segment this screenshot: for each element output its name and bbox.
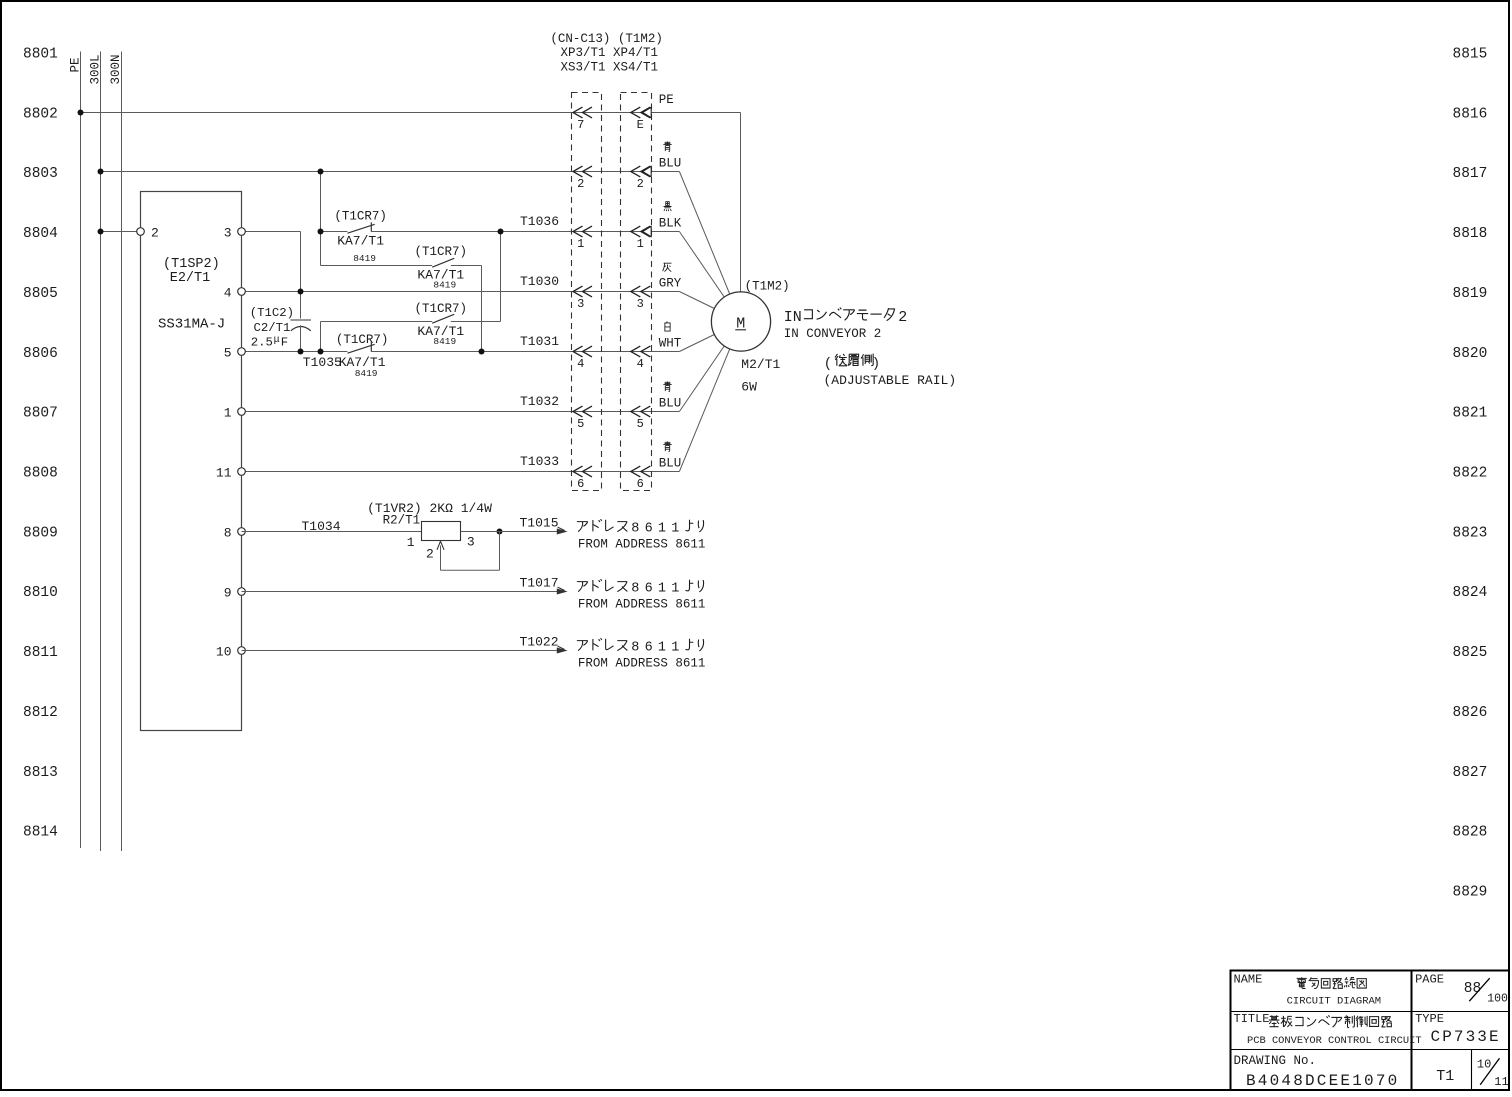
svg-text:6: 6 <box>645 640 653 655</box>
svg-text:2: 2 <box>898 309 907 326</box>
svg-text:5: 5 <box>224 345 232 360</box>
svg-text:BLK: BLK <box>659 216 682 230</box>
svg-text:6: 6 <box>637 477 644 491</box>
svg-text:4: 4 <box>637 357 644 371</box>
svg-text:7: 7 <box>577 118 584 132</box>
svg-text:(T1CR7): (T1CR7) <box>336 333 389 347</box>
svg-text:9: 9 <box>224 585 232 600</box>
svg-text:8820: 8820 <box>1453 346 1488 362</box>
svg-text:M2/T1: M2/T1 <box>741 357 780 372</box>
svg-text:F: F <box>281 336 288 350</box>
svg-text:μ: μ <box>274 335 280 346</box>
svg-text:PE: PE <box>69 57 83 72</box>
svg-text:T1033: T1033 <box>520 454 559 469</box>
svg-text:BLU: BLU <box>659 156 682 170</box>
svg-text:8823: 8823 <box>1453 525 1488 541</box>
svg-text:1: 1 <box>224 405 232 420</box>
svg-text:3: 3 <box>224 225 232 240</box>
svg-text:FROM ADDRESS 8611: FROM ADDRESS 8611 <box>578 656 706 670</box>
svg-text:6W: 6W <box>741 380 757 395</box>
svg-text:1: 1 <box>577 237 584 251</box>
svg-text:2: 2 <box>637 177 644 191</box>
svg-text:XS3/T1 XS4/T1: XS3/T1 XS4/T1 <box>561 61 659 75</box>
svg-text:88: 88 <box>1464 981 1481 997</box>
svg-text:T1030: T1030 <box>520 274 559 289</box>
svg-text:300L: 300L <box>89 54 103 84</box>
svg-text:B4048DCEE1070: B4048DCEE1070 <box>1246 1072 1399 1090</box>
svg-text:T1017: T1017 <box>519 576 558 591</box>
svg-text:8808: 8808 <box>23 465 58 481</box>
svg-text:8819: 8819 <box>1453 286 1488 302</box>
svg-text:8: 8 <box>631 640 639 655</box>
svg-text:8804: 8804 <box>23 226 58 242</box>
svg-text:(T1CR7): (T1CR7) <box>415 302 468 316</box>
svg-text:(T1C2): (T1C2) <box>250 306 294 320</box>
svg-text:C2/T1: C2/T1 <box>254 321 291 335</box>
svg-text:T1: T1 <box>1436 1068 1454 1085</box>
svg-text:E: E <box>637 118 644 132</box>
svg-text:2: 2 <box>426 547 434 562</box>
svg-text:2: 2 <box>577 177 584 191</box>
svg-text:1: 1 <box>671 640 679 655</box>
svg-text:8826: 8826 <box>1453 705 1488 721</box>
svg-text:3: 3 <box>577 297 584 311</box>
svg-text:NAME: NAME <box>1234 972 1263 986</box>
svg-text:T1022: T1022 <box>519 635 558 650</box>
svg-text:8: 8 <box>631 581 639 596</box>
svg-text:8818: 8818 <box>1453 226 1488 242</box>
svg-text:8827: 8827 <box>1453 765 1488 781</box>
svg-text:1: 1 <box>637 237 644 251</box>
svg-text:8815: 8815 <box>1453 46 1488 62</box>
svg-text:6: 6 <box>645 521 653 536</box>
svg-text:PAGE: PAGE <box>1415 972 1444 986</box>
svg-text:8419: 8419 <box>355 368 378 379</box>
svg-text:BLU: BLU <box>659 396 682 410</box>
svg-text:10: 10 <box>1477 1057 1491 1071</box>
svg-text:1: 1 <box>407 535 415 550</box>
svg-text:11: 11 <box>1494 1075 1508 1089</box>
svg-text:8807: 8807 <box>23 406 58 422</box>
svg-text:4: 4 <box>224 285 232 300</box>
svg-text:1: 1 <box>658 581 666 596</box>
svg-text:(T1CR7): (T1CR7) <box>415 245 468 259</box>
svg-text:1: 1 <box>658 521 666 536</box>
svg-text:PE: PE <box>659 93 674 107</box>
svg-text:SS31MA-J: SS31MA-J <box>158 317 225 333</box>
svg-text:8817: 8817 <box>1453 166 1488 182</box>
svg-text:8802: 8802 <box>23 106 58 122</box>
svg-text:T1035: T1035 <box>303 355 342 370</box>
svg-text:XP3/T1 XP4/T1: XP3/T1 XP4/T1 <box>561 46 659 60</box>
svg-text:T1015: T1015 <box>519 516 558 531</box>
svg-text:8801: 8801 <box>23 46 58 62</box>
svg-text:8419: 8419 <box>433 280 456 291</box>
svg-text:8811: 8811 <box>23 645 58 661</box>
svg-text:8419: 8419 <box>433 336 456 347</box>
svg-text:FROM ADDRESS 8611: FROM ADDRESS 8611 <box>578 537 706 551</box>
svg-text:TYPE: TYPE <box>1415 1012 1444 1026</box>
svg-text:CP733E: CP733E <box>1431 1028 1501 1046</box>
svg-text:3: 3 <box>467 535 475 550</box>
svg-text:PCB CONVEYOR CONTROL CIRCUIT: PCB CONVEYOR CONTROL CIRCUIT <box>1247 1035 1422 1047</box>
svg-text:3: 3 <box>637 297 644 311</box>
svg-text:IN CONVEYOR 2: IN CONVEYOR 2 <box>784 327 882 341</box>
svg-text:1: 1 <box>671 521 679 536</box>
svg-text:E2/T1: E2/T1 <box>170 271 211 286</box>
svg-text:1: 1 <box>658 640 666 655</box>
svg-text:2.5: 2.5 <box>251 336 273 350</box>
svg-text:8806: 8806 <box>23 346 58 362</box>
svg-text:6: 6 <box>645 581 653 596</box>
svg-text:8821: 8821 <box>1453 406 1488 422</box>
svg-text:): ) <box>872 356 880 372</box>
svg-text:WHT: WHT <box>659 336 682 350</box>
svg-text:4: 4 <box>577 357 584 371</box>
svg-text:8803: 8803 <box>23 166 58 182</box>
svg-text:8828: 8828 <box>1453 825 1488 841</box>
svg-text:T1036: T1036 <box>520 214 559 229</box>
svg-text:100: 100 <box>1487 993 1508 1006</box>
svg-text:8: 8 <box>224 525 232 540</box>
svg-text:(: ( <box>824 356 832 372</box>
svg-text:(ADJUSTABLE RAIL): (ADJUSTABLE RAIL) <box>824 373 957 388</box>
svg-text:8825: 8825 <box>1453 645 1488 661</box>
svg-text:6: 6 <box>577 477 584 491</box>
svg-text:8813: 8813 <box>23 765 58 781</box>
svg-text:(T1CR7): (T1CR7) <box>334 209 387 223</box>
svg-text:T1032: T1032 <box>520 394 559 409</box>
svg-text:R2/T1: R2/T1 <box>383 514 421 528</box>
svg-text:FROM ADDRESS 8611: FROM ADDRESS 8611 <box>578 597 706 611</box>
svg-text:300N: 300N <box>109 54 123 84</box>
svg-text:8816: 8816 <box>1453 106 1488 122</box>
svg-text:8805: 8805 <box>23 286 58 302</box>
svg-text:8824: 8824 <box>1453 585 1488 601</box>
svg-text:8419: 8419 <box>353 253 376 264</box>
svg-text:10: 10 <box>216 644 232 659</box>
svg-text:2: 2 <box>151 225 159 240</box>
svg-text:1: 1 <box>671 581 679 596</box>
svg-text:T1031: T1031 <box>520 334 559 349</box>
svg-text:CIRCUIT DIAGRAM: CIRCUIT DIAGRAM <box>1287 996 1382 1008</box>
svg-text:8810: 8810 <box>23 585 58 601</box>
svg-text:8809: 8809 <box>23 525 58 541</box>
svg-text:8: 8 <box>631 521 639 536</box>
svg-text:DRAWING No.: DRAWING No. <box>1234 1054 1317 1068</box>
svg-text:IN: IN <box>784 309 802 326</box>
svg-text:GRY: GRY <box>659 276 682 290</box>
svg-text:5: 5 <box>637 417 644 431</box>
svg-text:KA7/T1: KA7/T1 <box>337 233 384 248</box>
svg-text:TITLE: TITLE <box>1234 1012 1270 1026</box>
svg-text:(T1SP2): (T1SP2) <box>163 257 220 272</box>
svg-text:8812: 8812 <box>23 705 58 721</box>
svg-text:8822: 8822 <box>1453 465 1488 481</box>
svg-text:(T1M2): (T1M2) <box>745 280 790 294</box>
svg-text:8814: 8814 <box>23 825 58 841</box>
svg-text:(CN-C13) (T1M2): (CN-C13) (T1M2) <box>550 32 663 46</box>
svg-text:BLU: BLU <box>659 456 682 470</box>
svg-text:5: 5 <box>577 417 584 431</box>
svg-text:8829: 8829 <box>1453 885 1488 901</box>
svg-text:11: 11 <box>216 465 232 480</box>
